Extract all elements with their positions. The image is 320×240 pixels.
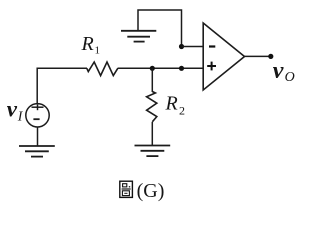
svg-text:I: I [17, 110, 24, 125]
ground G3 (below R2) [135, 146, 171, 157]
caption glyph 圖 [120, 181, 133, 197]
svg-text:(G): (G) [137, 180, 165, 202]
wire from source corner to resistor R1 [37, 68, 87, 104]
wire source to ground G2 [37, 127, 39, 146]
svg-text:2: 2 [179, 104, 185, 118]
voltage source VI [26, 104, 49, 127]
ground G1 (top, at inverting input) [121, 31, 156, 42]
op-amp minus pin label [209, 45, 215, 47]
svg-text:R: R [165, 92, 178, 114]
wire from R1 to non-inverting input [118, 67, 204, 69]
wire R2 to ground G3 [151, 122, 153, 146]
resistor R1 [87, 62, 118, 76]
svg-text:1: 1 [95, 45, 101, 57]
wire inverting input [182, 46, 204, 48]
wire op-amp output [245, 55, 270, 57]
wire node B to resistor R2 [151, 68, 153, 92]
node C junction dot on non-inverting line [179, 66, 184, 71]
op-amp plus pin label [207, 62, 216, 71]
resistor R2 [147, 92, 157, 122]
node output dot [268, 54, 273, 59]
svg-text:R: R [81, 33, 94, 55]
node A junction dot at inverting input [179, 44, 184, 49]
svg-text:O: O [285, 70, 295, 85]
op-amp U1 triangle [203, 23, 244, 90]
node B junction dot (R1/R2) [150, 66, 155, 71]
svg-text:v: v [273, 58, 284, 84]
wire top loop from ground G1 to inverting input [138, 10, 182, 47]
ground G2 (below source) [19, 146, 55, 157]
svg-text:v: v [7, 96, 18, 121]
